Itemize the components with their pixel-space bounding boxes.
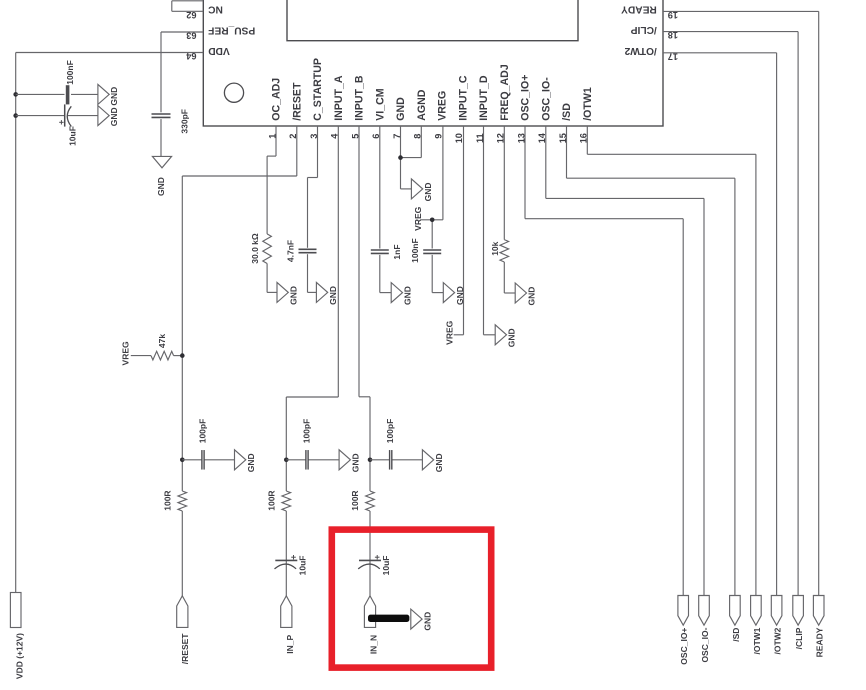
label /RESET xyxy=(180,633,190,665)
terminal /CLIP xyxy=(793,596,804,626)
capacitor 10uF (IN_N) polarized xyxy=(358,555,381,569)
ground GND (annotation) xyxy=(411,609,422,629)
IC U1 right pin name READY (pin 19) xyxy=(621,4,657,15)
svg-text:INPUT_B: INPUT_B xyxy=(354,75,366,121)
capacitor 100pF (IN_N) xyxy=(390,450,392,470)
terminal IN_N xyxy=(364,596,375,628)
svg-text:GND: GND xyxy=(156,177,166,196)
label OSC_IO- xyxy=(700,627,710,662)
resistor 100R (IN_N) xyxy=(366,491,375,511)
svg-text:10uF: 10uF xyxy=(68,126,78,146)
svg-text:OSC_IO-: OSC_IO- xyxy=(540,77,552,121)
wire READY (pin 19) xyxy=(663,11,819,595)
svg-text:GND: GND xyxy=(507,328,517,347)
svg-text:100R: 100R xyxy=(350,490,360,510)
ground GND (pins 7,8) xyxy=(411,179,422,199)
svg-text:/OTW2: /OTW2 xyxy=(624,45,657,56)
svg-text:100pF: 100pF xyxy=(302,419,312,444)
wire INPUT_A (pin 4) xyxy=(286,126,338,596)
svg-text:C_STARTUP: C_STARTUP xyxy=(312,58,324,121)
svg-text:VREG: VREG xyxy=(437,91,449,121)
ground GND (INPUT_D) xyxy=(495,325,506,345)
svg-text:VI_CM: VI_CM xyxy=(374,88,386,121)
IC U1 left pin name VDD (pin 64) xyxy=(208,45,230,56)
IC U1 right pin name /CLIP (pin 18) xyxy=(631,24,657,35)
capacitor 1nF xyxy=(371,250,389,253)
IC U1 bottom pin number labels 1-16 xyxy=(267,132,588,143)
svg-text:GND: GND xyxy=(289,286,299,305)
svg-text:PSU_REF: PSU_REF xyxy=(208,24,255,35)
node 47k junction xyxy=(180,353,185,358)
label GND (VREG) xyxy=(455,286,465,305)
svg-text:INPUT_D: INPUT_D xyxy=(478,75,490,121)
label 100pF (IN_N) xyxy=(385,419,395,444)
red highlight rectangle xyxy=(332,530,491,668)
node IN_N-100pF junction xyxy=(368,458,373,463)
capacitor 100nF (VDD) xyxy=(66,85,70,104)
node /RESET-100pF junction xyxy=(180,458,185,463)
svg-text:10uF: 10uF xyxy=(381,556,391,576)
node VREG junction xyxy=(430,218,435,223)
svg-text:/OTW1: /OTW1 xyxy=(582,87,594,121)
wire VDD to 100nF xyxy=(16,93,98,95)
resistor 100R (IN_P) xyxy=(282,491,291,511)
ground GND (VREG) xyxy=(443,283,454,303)
svg-text:100R: 100R xyxy=(163,490,173,510)
ground GND (FREQ_ADJ) xyxy=(515,283,526,303)
svg-text:OC_ADJ: OC_ADJ xyxy=(271,78,283,121)
wire to 100pF (IN_P) xyxy=(286,459,339,461)
label GND (100pF IN_N) xyxy=(434,453,444,472)
capacitor 100nF (VREG) xyxy=(423,250,441,253)
svg-text:GND: GND xyxy=(109,107,119,126)
pin number 17 xyxy=(668,51,678,61)
node IN_P-100pF junction xyxy=(284,458,289,463)
wire /SD (pin 15) xyxy=(567,126,735,596)
svg-text:OSC_IO+: OSC_IO+ xyxy=(520,75,532,121)
wire /RESET (pin 2) xyxy=(182,126,296,596)
svg-text:READY: READY xyxy=(621,4,657,15)
label GND (C_STARTUP) xyxy=(328,286,338,305)
svg-text:GND: GND xyxy=(403,286,413,305)
svg-text:9: 9 xyxy=(433,134,443,139)
wire VREG (pin 9) xyxy=(421,126,443,293)
wire OC_ADJ (pin 1) xyxy=(267,126,277,292)
terminal /OTW1 xyxy=(751,596,762,626)
svg-text:GND: GND xyxy=(395,97,407,121)
label IN_P xyxy=(285,634,295,653)
label 10k xyxy=(490,241,500,255)
label 100R (IN_N) xyxy=(350,490,360,510)
IC U1 bottom pin name labels (pins 1-16) xyxy=(271,58,594,121)
label VREG (INPUT_C) xyxy=(445,320,455,344)
label GND (VI_CM) xyxy=(403,286,413,305)
label VDD (+12V) xyxy=(14,633,24,679)
wire /CLIP (pin 18) xyxy=(663,32,798,596)
label 10uF (IN_N) xyxy=(381,556,391,576)
wire INPUT_D (pin 11) xyxy=(484,126,496,335)
ground GND (330pF) xyxy=(152,156,171,167)
pin number 18 xyxy=(668,30,678,40)
label GND (100nF VDD) xyxy=(109,87,119,106)
pin number 19 xyxy=(668,10,678,20)
svg-text:330pF: 330pF xyxy=(180,109,190,134)
pin number 62 xyxy=(186,10,196,20)
label GND (330pF) xyxy=(156,177,166,196)
label /SD xyxy=(731,628,741,642)
svg-text:NC: NC xyxy=(208,4,223,15)
wire /OTW1 (pin 16) xyxy=(587,126,756,596)
svg-text:/SD: /SD xyxy=(561,103,573,121)
svg-text:100pF: 100pF xyxy=(385,419,395,444)
svg-text:1nF: 1nF xyxy=(392,244,402,259)
IC U1 pin-1 indicator circle xyxy=(224,83,243,102)
svg-text:OSC_IO+: OSC_IO+ xyxy=(679,628,689,665)
svg-text:VDD (+12V): VDD (+12V) xyxy=(14,633,24,679)
wire VDD pin 64 rail xyxy=(16,53,204,593)
svg-text:/OTW2: /OTW2 xyxy=(773,627,783,654)
capacitor 100pF (IN_P) xyxy=(306,450,308,470)
wire OSC_IO- (pin 14) xyxy=(546,126,704,596)
wire C_STARTUP (pin 3) xyxy=(308,126,318,292)
svg-text:/OTW1: /OTW1 xyxy=(752,627,762,654)
svg-text:4.7nF: 4.7nF xyxy=(286,240,296,262)
label 1nF xyxy=(392,244,402,259)
wire NC pins 61-62 tie xyxy=(172,1,204,12)
resistor 30.0 kOhm xyxy=(263,234,272,264)
svg-text:GND: GND xyxy=(351,453,361,472)
svg-text:10k: 10k xyxy=(490,241,500,255)
wire /OTW2 (pin 17) xyxy=(663,53,777,596)
wire VI_CM (pin 6) xyxy=(380,126,391,293)
label VREG (pin 9) xyxy=(413,206,423,230)
label GND (100pF /RESET) xyxy=(246,453,256,472)
wire to 100pF (IN_N) xyxy=(370,459,422,461)
svg-text:/RESET: /RESET xyxy=(180,633,190,665)
label 10uF (IN_P) xyxy=(298,556,308,576)
wire FREQ_ADJ (pin 12) xyxy=(504,126,515,293)
label 10uF (VDD) xyxy=(68,126,78,146)
terminal OSC_IO+ xyxy=(678,596,689,626)
black annotation bar xyxy=(368,615,409,622)
ground GND (100pF IN_N) xyxy=(422,450,433,470)
svg-text:INPUT_A: INPUT_A xyxy=(333,75,345,121)
wire VREG to 47k xyxy=(131,355,183,357)
capacitor 100pF (/RESET) xyxy=(202,450,204,470)
wire VDD to 10uF xyxy=(16,115,98,117)
IC U1 left pin name NC (pin 62) xyxy=(208,4,223,15)
svg-text:100R: 100R xyxy=(267,490,277,510)
node VDD-10uF junction xyxy=(13,113,18,118)
ground GND (C_STARTUP) xyxy=(316,282,327,302)
ground GND (100nF VDD) xyxy=(98,84,109,104)
svg-text:100pF: 100pF xyxy=(198,419,208,444)
pin number 63 xyxy=(186,31,196,41)
svg-text:10: 10 xyxy=(454,133,464,143)
svg-text:INPUT_C: INPUT_C xyxy=(457,75,469,121)
capacitor 10uF (VDD) polarized xyxy=(59,104,71,126)
node pins7-8 junction xyxy=(398,155,403,160)
wire INPUT_B (pin 5) xyxy=(359,126,370,596)
label GND (OC_ADJ) xyxy=(289,286,299,305)
ground GND (100pF /RESET) xyxy=(235,450,246,470)
label 100R (/RESET) xyxy=(163,490,173,510)
label OSC_IO+ xyxy=(679,628,689,665)
terminal /SD xyxy=(730,596,741,626)
label 4.7nF xyxy=(286,240,296,262)
svg-text:/RESET: /RESET xyxy=(291,82,303,121)
label GND (annotation) xyxy=(423,612,433,631)
ground GND (OC_ADJ) xyxy=(277,282,288,302)
pin number 64 xyxy=(185,51,196,61)
label IN_N xyxy=(368,635,378,654)
label 47k xyxy=(157,334,167,348)
node VDD-100nF junction xyxy=(13,92,18,97)
label READY xyxy=(815,627,825,657)
svg-text:VREG: VREG xyxy=(120,341,130,365)
terminal /OTW2 xyxy=(771,596,782,626)
IC U1 left pin name PSU_REF (pin 63) xyxy=(208,24,255,35)
label 330pF xyxy=(180,109,190,134)
svg-text:OSC_IO-: OSC_IO- xyxy=(700,627,710,662)
label /OTW1 xyxy=(752,627,762,654)
svg-text:/CLIP: /CLIP xyxy=(631,24,657,35)
resistor 100R (/RESET) xyxy=(178,491,187,511)
svg-text:AGND: AGND xyxy=(416,89,428,121)
svg-text:GND: GND xyxy=(423,612,433,631)
label GND (100pF IN_P) xyxy=(351,453,361,472)
IC U1 inner thermal-pad outline xyxy=(287,0,578,41)
svg-text:100nF: 100nF xyxy=(410,238,420,263)
svg-text:GND: GND xyxy=(434,453,444,472)
svg-text:GND: GND xyxy=(423,182,433,201)
svg-text:READY: READY xyxy=(815,627,825,657)
wire to 100pF (/RESET) xyxy=(182,459,234,461)
svg-text:100nF: 100nF xyxy=(65,60,75,85)
IC U1 right pin name /OTW2 (pin 17) xyxy=(624,45,657,56)
svg-text:VREG: VREG xyxy=(445,320,455,344)
ground GND (100pF IN_P) xyxy=(339,450,350,470)
label /OTW2 xyxy=(773,627,783,654)
label 100nF (VDD) xyxy=(65,60,75,85)
ground GND (10uF VDD) xyxy=(98,106,109,126)
label GND (FREQ_ADJ) xyxy=(527,287,537,306)
terminal VDD (+12V) xyxy=(10,593,21,628)
ground GND (VI_CM) xyxy=(391,283,402,303)
svg-text:47k: 47k xyxy=(157,334,167,348)
terminal OSC_IO- xyxy=(699,596,710,626)
svg-text:/CLIP: /CLIP xyxy=(794,627,804,649)
wire GND/AGND (pins 7,8) xyxy=(401,126,422,189)
label 30.0 kOhm xyxy=(250,233,260,264)
capacitor 10uF (IN_P) polarized xyxy=(275,555,298,569)
capacitor 330pF xyxy=(152,114,171,117)
label VREG (47k) xyxy=(120,341,130,365)
wire INPUT_C (pin 10) xyxy=(454,126,464,335)
svg-text:GND: GND xyxy=(109,87,119,106)
svg-text:GND: GND xyxy=(328,286,338,305)
label GND (10uF VDD) xyxy=(109,107,119,126)
svg-text:GND: GND xyxy=(246,453,256,472)
svg-text:GND: GND xyxy=(527,287,537,306)
svg-text:30.0 kΩ: 30.0 kΩ xyxy=(250,233,260,264)
svg-text:IN_P: IN_P xyxy=(285,634,295,653)
svg-text:IN_N: IN_N xyxy=(368,635,378,654)
svg-text:/SD: /SD xyxy=(731,628,741,642)
svg-text:VREG: VREG xyxy=(413,206,423,230)
resistor 10k xyxy=(500,240,509,262)
svg-text:FREQ_ADJ: FREQ_ADJ xyxy=(499,64,511,121)
svg-text:10uF: 10uF xyxy=(298,556,308,576)
terminal READY xyxy=(813,596,824,626)
op-amp/IC U1 body outline xyxy=(203,0,663,126)
terminal IN_P xyxy=(281,596,292,628)
label 100pF (/RESET) xyxy=(198,419,208,444)
resistor 47k xyxy=(151,351,174,360)
label 100nF (VREG) xyxy=(410,238,420,263)
wire PSU_REF pin 63 to 330pF xyxy=(161,32,203,156)
label 100pF (IN_P) xyxy=(302,419,312,444)
capacitor 4.7nF xyxy=(299,249,317,252)
wire OSC_IO+ (pin 13) xyxy=(525,126,683,596)
label GND (pins 7,8) xyxy=(423,182,433,201)
terminal /RESET xyxy=(177,596,188,628)
label /CLIP xyxy=(794,627,804,649)
svg-text:VDD: VDD xyxy=(208,45,230,56)
label 100R (IN_P) xyxy=(267,490,277,510)
label GND (INPUT_D) xyxy=(507,328,517,347)
